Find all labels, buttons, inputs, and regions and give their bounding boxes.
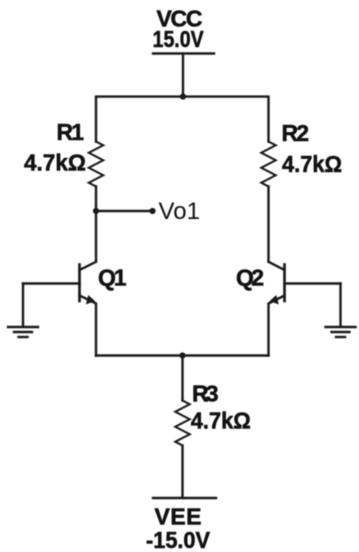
svg-text:-15.0V: -15.0V <box>146 527 211 552</box>
svg-text:4.7kΩ: 4.7kΩ <box>24 150 86 176</box>
svg-text:Vo1: Vo1 <box>159 198 201 225</box>
svg-text:R3: R3 <box>192 381 219 407</box>
svg-text:15.0V: 15.0V <box>153 26 205 52</box>
svg-text:Q2: Q2 <box>236 265 264 291</box>
svg-text:VEE: VEE <box>155 504 202 530</box>
svg-text:Q1: Q1 <box>98 265 127 291</box>
svg-text:R2: R2 <box>282 120 310 146</box>
svg-text:4.7kΩ: 4.7kΩ <box>191 408 251 434</box>
svg-text:4.7kΩ: 4.7kΩ <box>282 151 342 177</box>
svg-text:R1: R1 <box>57 119 85 145</box>
